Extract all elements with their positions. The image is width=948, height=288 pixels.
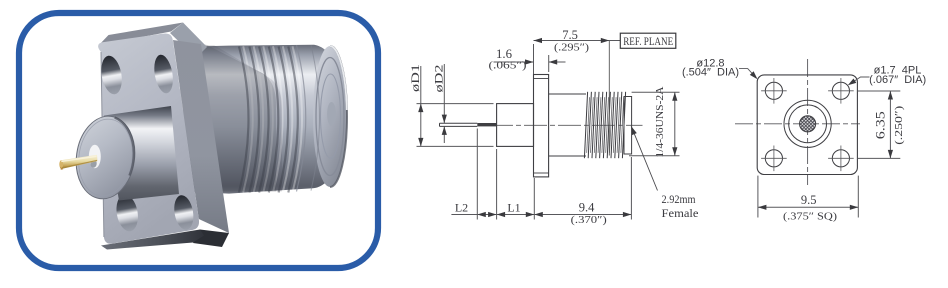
svg-text:(.065″): (.065″) [489,61,527,72]
svg-text:(.504″ DIA): (.504″ DIA) [682,67,739,79]
svg-text:Female: Female [662,206,699,220]
svg-text:(.250″): (.250″) [893,105,905,144]
svg-text:9.4: 9.4 [579,201,595,215]
svg-text:REF. PLANE: REF. PLANE [623,36,673,48]
svg-text:øD2: øD2 [432,65,446,93]
svg-text:(.295″): (.295″) [554,42,589,53]
svg-text:øD1: øD1 [408,64,422,92]
svg-text:6.35: 6.35 [873,111,887,139]
svg-text:(.370″): (.370″) [571,215,607,226]
svg-text:1.6: 1.6 [496,47,512,61]
svg-text:(.375″ SQ): (.375″ SQ) [783,212,838,223]
svg-text:7.5: 7.5 [562,28,578,42]
svg-text:L2: L2 [455,200,468,214]
svg-text:9.5: 9.5 [801,193,817,207]
svg-text:2.92mm: 2.92mm [662,192,697,206]
svg-text:(.067″ DIA): (.067″ DIA) [869,74,926,86]
svg-text:L1: L1 [507,200,520,214]
svg-text:1/4-36UNS-2A: 1/4-36UNS-2A [654,86,666,157]
